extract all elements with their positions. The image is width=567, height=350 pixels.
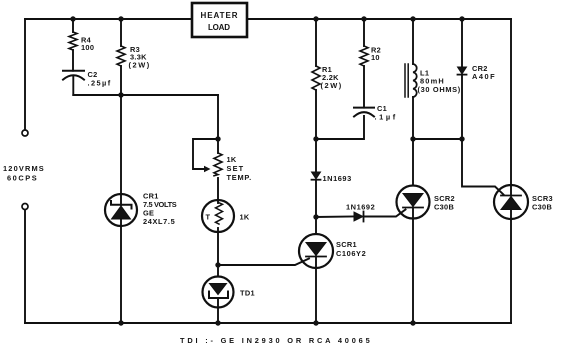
wire top rail left segment — [25, 18, 192, 20]
wire R2 to C1 — [363, 66, 365, 108]
terminal top (open circle) — [22, 130, 28, 136]
wire R2 top lead — [363, 19, 365, 46]
node dot TD1 bottom rail — [215, 320, 220, 325]
svg-text:C106Y2: C106Y2 — [336, 249, 366, 258]
svg-text:TD1: TD1 — [240, 289, 255, 298]
node dot top rail / L1 — [410, 16, 415, 21]
svg-text:SET: SET — [227, 164, 244, 173]
wire SCR1 cathode to bottom rail — [315, 257, 317, 324]
trigger diode TD1 — [203, 277, 234, 308]
label R4 100 — [81, 36, 94, 53]
label R3 3.3K (2W) — [129, 45, 150, 70]
capacitor C2 — [63, 71, 84, 95]
heater load box — [192, 3, 247, 37]
svg-text:100: 100 — [81, 43, 94, 52]
svg-text:(30 OHMS): (30 OHMS) — [418, 85, 461, 94]
wire top rail right segment — [247, 18, 511, 20]
SCR2 — [397, 186, 430, 219]
wire 1N1693 to SCR1 — [315, 180, 317, 234]
label R1 2.2K (2W) — [321, 65, 342, 90]
svg-text:.25µf: .25µf — [88, 79, 111, 88]
wire R1 bottom to 1N1693 — [315, 90, 317, 172]
wire CR2 top lead — [461, 19, 463, 67]
wire pot branch vertical from node A — [217, 95, 219, 153]
svg-text:24XL7.5: 24XL7.5 — [143, 217, 175, 226]
svg-text:1K: 1K — [227, 155, 237, 164]
wire left AC line lower — [24, 210, 26, 323]
wire right vertical lower (SCR3 cathode to bottom rail) — [510, 219, 512, 323]
node dot C1 branch — [313, 136, 318, 141]
wire left AC line upper — [24, 19, 26, 130]
node dot 1N1692 branch — [313, 214, 318, 219]
SCR3 — [494, 185, 528, 219]
zener CR1 — [105, 194, 137, 226]
label 120VRMS 60CPS — [3, 164, 44, 183]
wire CR2 to SCR3 gate (L shape) — [462, 139, 504, 195]
svg-text:C30B: C30B — [532, 203, 552, 212]
label SCR3 C30B — [532, 194, 553, 212]
label C1 .1µf — [375, 104, 396, 122]
svg-text:(2W): (2W) — [129, 61, 150, 70]
wire R1 top lead — [315, 19, 317, 66]
wire bottom rail — [25, 322, 511, 324]
svg-text:LOAD: LOAD — [208, 23, 231, 32]
svg-text:60CPS: 60CPS — [7, 174, 37, 183]
svg-text:TDI :- GE IN2930 OR RCA 40065: TDI :- GE IN2930 OR RCA 40065 — [180, 336, 370, 345]
svg-text:T: T — [206, 213, 211, 222]
node dot R3 at node A — [118, 92, 123, 97]
wire R4 to C2 — [72, 50, 74, 71]
potentiometer resistor body — [214, 153, 222, 176]
svg-text:1K: 1K — [240, 213, 250, 222]
node dot pot loop top — [215, 136, 220, 141]
resistor R2 — [360, 46, 368, 66]
label R2 10 — [371, 46, 381, 63]
label C2 .25µf — [88, 70, 111, 88]
svg-text:C30B: C30B — [434, 203, 454, 212]
wire right vertical upper (top rail to SCR3) — [510, 19, 512, 185]
wire CR2 bottom lead — [461, 75, 463, 139]
wire SCR2 cathode to bottom rail — [412, 208, 414, 324]
resistor R3 — [117, 46, 125, 66]
diode 1N1693 — [312, 172, 321, 180]
node dot CR1 bottom rail — [118, 320, 123, 325]
svg-text:TEMP.: TEMP. — [227, 173, 252, 182]
wire R4 top lead — [72, 19, 74, 32]
wire R3 top lead — [120, 19, 122, 46]
wire L1 bottom lead — [412, 97, 414, 139]
svg-text:1N1693: 1N1693 — [323, 174, 352, 183]
label CR2 A40F — [472, 64, 495, 81]
wire 1N1692 to SCR2 gate — [364, 210, 406, 217]
potentiometer wiper arrow — [204, 166, 211, 172]
wire L1 bottom to CR2 bottom — [413, 138, 462, 140]
node dot CR2 bottom — [459, 136, 464, 141]
diode CR2 — [458, 67, 467, 75]
wire R3 node to CR1 — [120, 95, 122, 205]
wire node A horizontal (C2 bottom to pot branch) — [73, 94, 218, 96]
node dot SCR1 gate branch — [215, 262, 220, 267]
wire pot to thermistor — [217, 178, 219, 203]
wire to C1 bottom — [316, 116, 364, 139]
svg-text:1N1692: 1N1692 — [346, 203, 375, 212]
wire to SCR2 anode — [412, 139, 414, 186]
node dot top rail / R2 — [361, 16, 366, 21]
wire L1 top lead — [412, 19, 414, 64]
label SCR2 C30B — [434, 194, 455, 212]
resistor R1 — [312, 66, 320, 90]
SCR1 — [299, 234, 333, 268]
resistor R4 — [69, 32, 77, 50]
wire CR1 to bottom rail — [120, 219, 122, 323]
diode 1N1692 — [354, 212, 364, 222]
label L1 80mH (30 OHMS) — [418, 69, 461, 95]
node dot top rail / CR2 — [459, 16, 464, 21]
svg-text:A40F: A40F — [472, 72, 495, 81]
node dot top rail / R4 — [70, 16, 75, 21]
svg-text:.1µf: .1µf — [375, 113, 396, 122]
svg-text:HEATER: HEATER — [201, 11, 239, 20]
node dot top rail / R3 — [118, 16, 123, 21]
wire TD1 to bottom rail — [217, 298, 219, 323]
node dot top rail / R1 — [313, 16, 318, 21]
svg-text:(2W): (2W) — [321, 81, 342, 90]
svg-text:SCR1: SCR1 — [336, 240, 357, 249]
svg-text:10: 10 — [371, 53, 380, 62]
wire thermistor to TD1 — [217, 228, 219, 277]
label 1K SET TEMP. — [227, 155, 252, 182]
label SCR1 C106Y2 — [336, 240, 366, 258]
wire 1N1692 left lead — [316, 216, 354, 219]
node dot SCR2 bottom rail — [410, 320, 415, 325]
node dot SCR1 bottom rail — [313, 320, 318, 325]
capacitor C1 — [354, 108, 374, 117]
thermistor T 1K — [202, 200, 234, 232]
inductor L1 — [405, 64, 417, 97]
label CR1 7.5 VOLTS GE 24XL7.5 — [143, 192, 177, 227]
potentiometer 1K SET TEMP loop wire — [193, 139, 218, 169]
wire R3 bottom lead — [120, 66, 122, 95]
svg-text:120VRMS: 120VRMS — [3, 164, 44, 173]
terminal bottom (open circle) — [22, 204, 28, 210]
wire SCR1 gate — [218, 259, 309, 266]
node dot L1 bottom — [410, 136, 415, 141]
